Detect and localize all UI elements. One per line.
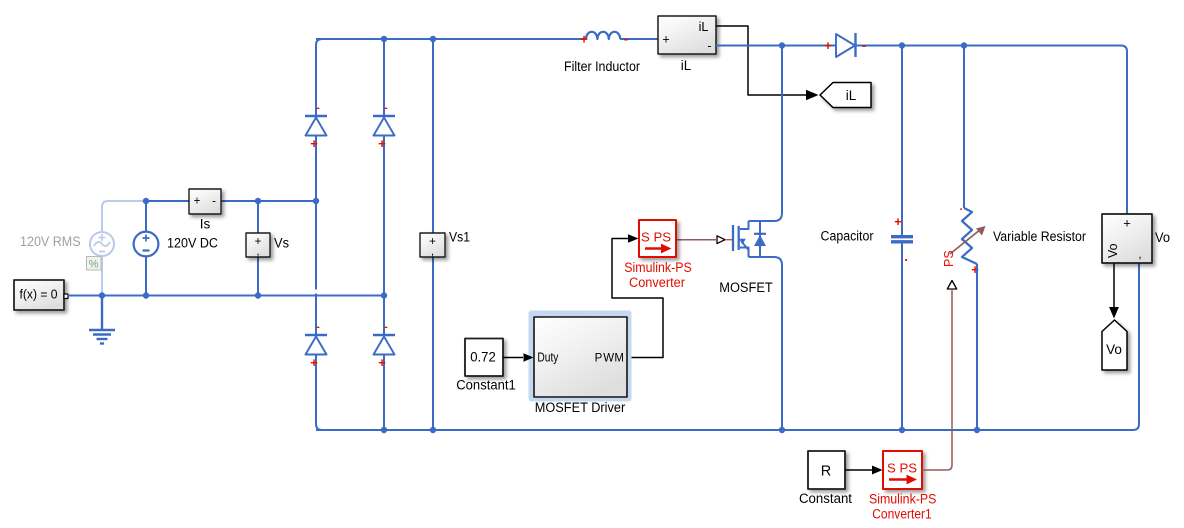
svg-text:Variable Resistor: Variable Resistor [993, 229, 1086, 244]
wire top net (sources) [146, 200, 316, 202]
svg-text:Constant: Constant [799, 491, 852, 506]
svg-text:.: . [959, 201, 962, 213]
svg-text:,: , [1138, 249, 1141, 261]
subsystem MOSFET Driver [534, 317, 627, 397]
svg-text:f(x) = 0: f(x) = 0 [20, 287, 58, 302]
diode D5 polarity marks [824, 38, 866, 54]
diode D1 (bridge top-left) [305, 102, 327, 151]
voltage sensor Vs1 [420, 233, 445, 258]
diode D2 (bridge top-right) [373, 102, 395, 151]
svg-text:Vo: Vo [1155, 229, 1170, 245]
svg-text:120V RMS: 120V RMS [20, 234, 81, 249]
svg-text:%: % [89, 259, 99, 271]
goto tag iL [820, 83, 871, 108]
svg-text:+: + [662, 33, 669, 47]
svg-text:.: . [904, 249, 908, 264]
voltage sensor Vo [1102, 214, 1152, 263]
svg-text:PWM: PWM [595, 353, 624, 365]
svg-text:+: + [194, 196, 201, 208]
PS wire converter1 to variable resistor [922, 289, 952, 470]
voltage sensor Vs [246, 201, 270, 295]
crossing gap (bottom net over left branch) [314, 290, 318, 294]
svg-text:+: + [1123, 216, 1131, 231]
wire top rail (bridge to inductor) [316, 38, 586, 40]
svg-text:PS: PS [942, 250, 956, 267]
signal wire Constant1 to Duty [503, 357, 523, 359]
variable resistor PS port triangle [947, 281, 956, 290]
MOSFET gate port triangle [717, 236, 725, 244]
diode D5 (output) [836, 33, 856, 57]
svg-text:+: + [378, 355, 386, 370]
svg-text:Filter Inductor: Filter Inductor [564, 59, 640, 74]
wire bottom net (sources) [102, 295, 384, 297]
svg-text:+: + [310, 355, 318, 370]
svg-text:Vs: Vs [274, 236, 289, 251]
MOSFET Driver selection halo [529, 311, 632, 402]
svg-text:Constant1: Constant1 [456, 378, 516, 393]
svg-text:Converter1: Converter1 [872, 507, 932, 522]
arrowhead into iL tag [806, 90, 819, 100]
svg-text:Vs1: Vs1 [449, 230, 470, 245]
variable resistor wiper arrow [950, 226, 986, 254]
svg-text:MOSFET: MOSFET [719, 280, 773, 295]
svg-text:iL: iL [699, 20, 709, 34]
variable resistor branch wire upper [963, 46, 965, 209]
signal wire Constant to converter1 [845, 469, 872, 471]
svg-text:Converter: Converter [629, 275, 685, 290]
bridge left branch wire [316, 39, 322, 430]
svg-text:-: - [707, 39, 711, 53]
constant block Constant1 (0.72) [465, 339, 503, 377]
svg-text:+: + [894, 214, 902, 229]
node dots top rail right [779, 42, 967, 48]
svg-text:-: - [384, 102, 388, 114]
inductor Filter Inductor [586, 32, 620, 39]
svg-text:120V DC: 120V DC [167, 236, 218, 251]
svg-text:,: , [256, 246, 259, 258]
diode D3 (bridge bottom-left) [305, 321, 327, 370]
arrowhead into Duty [524, 353, 534, 362]
Simulink-PS Converter1 block U2 [883, 451, 922, 489]
bridge right branch wire [383, 39, 385, 430]
svg-text:-: - [212, 196, 216, 208]
svg-text:iL: iL [681, 58, 692, 73]
gate stub [725, 239, 732, 241]
node junction dots (source nets) [99, 198, 387, 299]
wire solver to node [68, 295, 102, 297]
DC source 120V DC [134, 201, 159, 295]
svg-text:+: + [824, 38, 832, 53]
signal wire PWM to converter [612, 239, 663, 358]
svg-text:-: - [316, 321, 320, 333]
Simulink-PS Converter block U1 [639, 220, 676, 257]
diode D4 (bridge bottom-right) [373, 321, 395, 370]
wire iL- to diode [716, 45, 836, 47]
wire inductor to iL sensor [620, 38, 658, 40]
svg-text:0.72: 0.72 [470, 350, 496, 365]
goto tag Vo [1102, 320, 1127, 370]
svg-text:Is: Is [200, 217, 211, 232]
current sensor iL [658, 16, 716, 54]
svg-text:+: + [971, 262, 979, 277]
svg-text:Simulink-PS: Simulink-PS [869, 492, 937, 507]
wire diode to Vo sensor (top right rail) [856, 46, 1127, 215]
arrowhead into Vo tag [1109, 307, 1119, 319]
ground [89, 296, 115, 344]
signal wire Vo to goto tag [1113, 264, 1115, 309]
svg-text:,: , [431, 246, 434, 258]
percent badge (comment-through marker) [87, 257, 102, 271]
svg-text:-: - [316, 102, 320, 114]
MOSFET source wire [749, 257, 783, 430]
current sensor Is [189, 189, 221, 214]
variable resistor branch wire lower [976, 264, 978, 430]
svg-text:S PS: S PS [641, 230, 671, 245]
svg-text:+: + [580, 32, 588, 47]
svg-text:-: - [624, 31, 628, 46]
constant block Constant (R) [808, 451, 845, 489]
svg-text:+: + [310, 136, 318, 151]
Vs1 branch wire [432, 39, 434, 430]
capacitor C1 [891, 214, 913, 264]
svg-text:Vo: Vo [1106, 342, 1122, 357]
solver block f(x)=0 [14, 280, 68, 310]
variable resistor R1 [959, 201, 979, 277]
svg-text:Capacitor: Capacitor [821, 229, 874, 244]
svg-text:+: + [378, 136, 386, 151]
arrowhead into converter [628, 234, 639, 243]
MOSFET drain wire [749, 46, 783, 222]
svg-text:MOSFET Driver: MOSFET Driver [535, 400, 626, 415]
node dots top rail left [381, 36, 436, 42]
arrowhead into converter1 [872, 466, 883, 475]
svg-text:S PS: S PS [887, 461, 917, 476]
svg-text:Duty: Duty [537, 350, 558, 365]
node dots bottom rail [381, 427, 980, 433]
inductor polarity marks [580, 31, 628, 47]
svg-text:Simulink-PS: Simulink-PS [624, 260, 692, 275]
svg-text:Vo: Vo [1106, 243, 1120, 258]
svg-text:iL: iL [846, 88, 857, 103]
signal wire iL to goto tag [716, 26, 806, 95]
svg-text:R: R [821, 464, 831, 480]
AC source 120V RMS (commented through, faded) [90, 201, 146, 295]
capacitor branch wire lower [901, 244, 903, 431]
bottom rail wire [316, 264, 1139, 431]
capacitor branch wire upper [901, 46, 903, 236]
PS wire converter to gate [676, 239, 717, 241]
transistor MOSFET [733, 221, 766, 257]
svg-text:-: - [384, 321, 388, 333]
svg-text:-: - [862, 38, 866, 53]
